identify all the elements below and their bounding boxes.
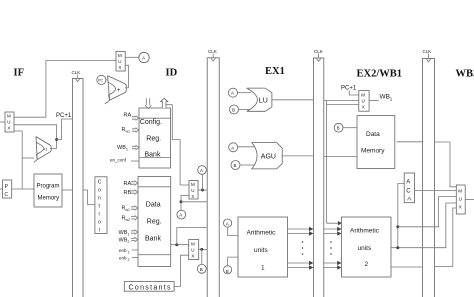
svg-text:X: X [7,126,10,131]
wire: ACC output to WB2 mux [415,190,457,192]
svg-text:l: l [99,228,100,234]
wire: mux out down to PC/incrementer node [14,131,22,189]
svg-text:2: 2 [128,240,130,244]
svg-text:X: X [362,105,365,110]
mux ID jump address [116,51,125,71]
arithmetic units 1 [238,217,288,277]
node A (arith1 input) [224,219,232,227]
svg-text:A: A [226,221,229,226]
svg-text:X: X [191,254,194,259]
svg-text:o: o [98,220,101,226]
svg-text:Constants: Constants [129,284,172,291]
svg-text:en_conf: en_conf [110,158,127,163]
node B [197,264,206,273]
svg-text:enb: enb [119,248,127,253]
wire: PC+1 into WB1 mux [349,91,359,96]
wire: PC+1 into IF mux [14,125,57,149]
svg-text:WB: WB [380,94,390,101]
mux WB2 [456,185,465,214]
svg-text:B: B [232,108,235,113]
wire: IF/ID register to control [83,190,95,205]
svg-text:M: M [191,242,195,247]
svg-text:M: M [361,93,365,98]
svg-text:o: o [98,188,101,194]
wire: AGU result to data memory [324,155,357,157]
wire: data bank RB port to ID/EX register [171,244,189,246]
svg-text:B: B [200,267,203,272]
svg-text:Bank: Bank [145,152,161,159]
svg-text:A: A [179,213,182,218]
wire: A into arith units 1 [228,228,238,236]
pipeline register ID/EX1 [207,49,219,297]
address generation unit AGU [252,143,282,169]
wire: A bus to mux A and register [181,195,189,210]
wire: LU result down to arith units 2 [327,104,339,223]
wire: result bus down to ACC input [398,183,404,247]
wire: data memory output through WB1/WB2 register [397,142,457,187]
svg-text:RA: RA [124,181,132,187]
node PC [97,75,106,84]
svg-text:w1: w1 [126,208,131,212]
svg-text:A: A [406,180,410,186]
arithmetic units 2 [342,217,392,277]
wire: A to LU [238,92,252,94]
wire: forward node to WB2 mux [396,225,399,228]
svg-text:units: units [358,245,372,252]
svg-text:PC: PC [98,78,103,82]
pipeline register IF/ID [72,70,84,297]
svg-text:1: 1 [261,265,265,272]
svg-text:CLK: CLK [208,49,217,54]
svg-text:CLK: CLK [314,49,323,54]
node A (operand A bus source) [177,210,186,219]
svg-text:WB: WB [119,230,128,236]
bus: arith1 outputs to register (lower pair) [288,263,310,268]
wire: program memory output to IF/ID register [62,189,73,191]
data memory [357,116,395,169]
svg-text:+: + [117,88,121,94]
svg-text:U: U [191,248,194,253]
svg-text:1: 1 [126,148,128,152]
operand mux A [189,181,198,200]
control unit [95,177,107,234]
svg-text:U: U [191,188,194,193]
svg-text:B: B [234,163,237,168]
svg-text:Data: Data [146,202,161,209]
ellipsis between buses [302,241,304,255]
node B (arith1 input) [224,266,232,274]
node: PC+1 junction [55,138,58,141]
svg-text:IF: IF [14,68,25,79]
wire: B to LU [239,109,252,111]
node A (next address) [139,52,149,62]
svg-text:PC+1: PC+1 [56,113,72,119]
config write arrow (down) [145,98,151,108]
svg-text:2: 2 [365,261,369,268]
node B (AGU input) [231,161,240,170]
wire: config output to operand mux A [167,105,190,185]
bus: register to arith2 (upper pair) [324,229,338,234]
svg-text:Arithmetic: Arithmetic [247,230,277,237]
svg-text:CLK: CLK [423,49,432,54]
svg-text:A: A [200,168,203,173]
wire: parallel branch to mux [327,101,359,105]
svg-text:M: M [118,53,122,58]
svg-text:X: X [459,205,462,210]
svg-text:w1: w1 [126,130,131,134]
wire: PC to program memory [12,188,34,190]
svg-text:ID: ID [166,68,178,79]
svg-text:C: C [406,189,411,195]
svg-text:X: X [191,194,194,199]
svg-text:EX2/WB1: EX2/WB1 [357,69,403,80]
svg-text:M: M [7,114,11,119]
node A (AGU input) [229,143,238,152]
svg-text:Program: Program [37,184,60,190]
svg-text:1: 1 [128,233,130,237]
wire: PC+1 to IF/ID register [57,119,73,140]
svg-text:U: U [118,59,121,64]
svg-text:U: U [7,120,10,125]
wire: node to incrementer input [22,157,37,159]
node B (data memory input) [334,123,343,132]
wire: LU output to EX1/EX2 register [272,99,314,101]
ellipsis [330,241,332,255]
svg-text:M: M [458,189,462,194]
data register bank [138,177,171,267]
svg-text:A: A [142,56,145,61]
mux WB1 [359,91,369,112]
svg-text:+1: +1 [43,146,48,151]
svg-text:U: U [459,197,462,202]
wire: B into arith units 1 [228,257,238,266]
wire: A to AGU [238,146,254,148]
svg-text:C: C [98,180,102,186]
incrementer +1 ALU [34,137,51,163]
svg-text:B: B [226,269,229,274]
wire: branch target feedback into IF mux and ID mux [14,61,116,118]
logic unit LU [247,88,272,111]
svg-text:B: B [337,126,340,131]
svg-text:1: 1 [128,251,130,255]
wire: incrementer output [50,148,57,150]
node B (LU input) [230,105,239,114]
wire: WB2 mux output [465,198,474,200]
svg-text:2: 2 [128,258,130,262]
accumulator ACC [404,173,414,203]
wire: IF mux output to left edge [0,121,5,123]
pipeline register EX1/EX2 [313,49,323,297]
svg-text:WB2: WB2 [456,69,474,80]
svg-text:A: A [231,91,234,96]
node A (above mux out) [198,166,207,175]
ID branch adder [105,76,126,104]
svg-text:Data: Data [366,131,380,138]
wire: PC node to ID adder [106,79,110,81]
svg-text:Config.: Config. [140,119,162,126]
svg-text:U: U [362,99,365,104]
pipeline register WB1/WB2 [423,49,435,297]
svg-text:LU: LU [259,98,268,105]
operand mux B [189,240,199,260]
wire: arith2 second result through register to WB2 mux [391,208,456,267]
svg-text:enb: enb [119,256,127,261]
svg-text:AGU: AGU [261,154,276,161]
svg-text:Memory: Memory [361,148,385,155]
wire: B to AGU [240,164,254,166]
constants box [124,282,174,292]
register PC [3,180,12,198]
svg-text:M: M [191,182,195,187]
wire: AGU output to EX1/EX2 register [282,155,313,157]
bus: arith1 outputs to register (upper pair) [288,229,310,234]
program memory [34,174,62,207]
svg-text:RB: RB [124,190,132,196]
wire: arith2 result to WB2 mux [391,203,456,248]
wire: mux B output to register, node B below [199,248,208,250]
svg-text:C: C [4,192,8,198]
svg-text:RA: RA [124,113,132,119]
svg-text:EX1: EX1 [265,66,285,77]
svg-text:units: units [254,247,268,254]
wire: B to data memory [343,127,357,129]
svg-text:Reg.: Reg. [147,219,162,226]
svg-text:Memory: Memory [38,196,60,202]
wire: LU result from register to WB1 mux [324,100,359,102]
svg-text:Bank: Bank [145,236,161,243]
config read arrow (up) [161,98,168,108]
svg-text:A: A [231,145,234,150]
svg-text:WB: WB [119,238,128,244]
wire: constants to mux B [174,255,189,286]
wire: WB1 mux output [369,100,379,102]
wire: ID mux output to node A [125,56,139,58]
node A (LU input) [229,88,238,97]
mux IF next-PC [5,112,14,132]
svg-text:X: X [118,65,121,70]
wire: ID adder output to ID mux [125,65,128,88]
svg-text:Reg.: Reg. [146,136,161,143]
svg-text:CLK: CLK [72,70,81,75]
wire: mux A output to ID/EX register [198,189,208,191]
svg-text:n: n [98,196,101,202]
config register bank [139,108,171,168]
bus: register to arith2 (lower pair) [324,263,338,268]
svg-text:Arithmetic: Arithmetic [350,228,380,235]
svg-text:WB: WB [117,145,126,151]
svg-text:w2: w2 [126,218,131,222]
wire: PC input from left edge [0,188,3,190]
